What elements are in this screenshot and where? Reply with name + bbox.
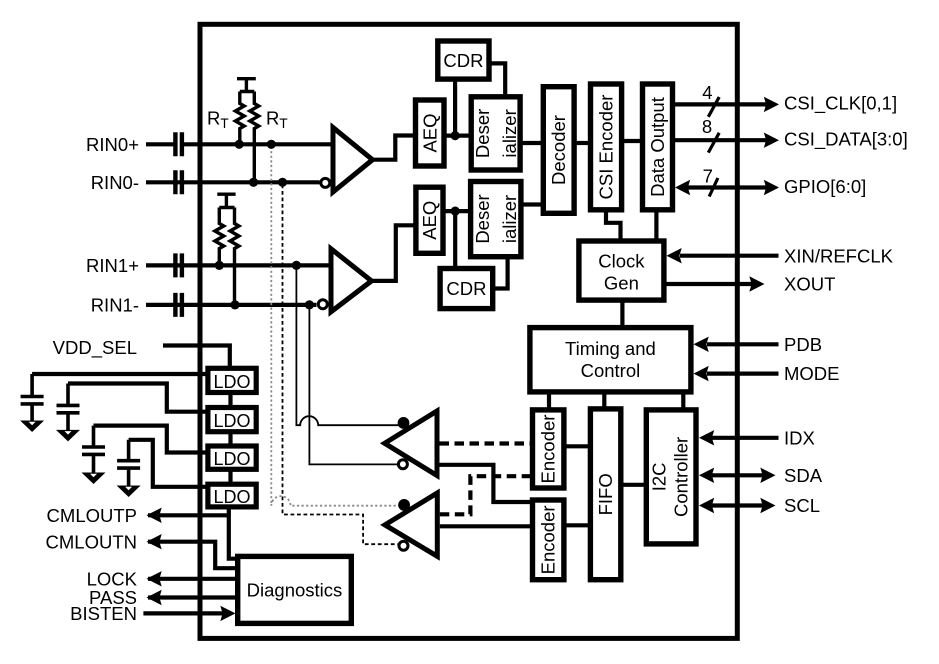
svg-text:I2C: I2C — [648, 463, 669, 492]
svg-text:XOUT: XOUT — [784, 274, 835, 295]
svg-text:RT: RT — [266, 108, 288, 131]
svg-text:Deser: Deser — [472, 194, 493, 243]
svg-text:ializer: ializer — [499, 109, 520, 157]
svg-text:RT: RT — [207, 108, 229, 131]
svg-text:CSI Encoder: CSI Encoder — [596, 95, 617, 200]
svg-text:LDO: LDO — [213, 487, 250, 507]
svg-text:BISTEN: BISTEN — [70, 603, 137, 624]
svg-text:CDR: CDR — [446, 278, 486, 299]
svg-text:XIN/REFCLK: XIN/REFCLK — [784, 245, 894, 266]
svg-text:IDX: IDX — [784, 427, 815, 448]
svg-text:RIN1+: RIN1+ — [86, 255, 139, 276]
svg-text:Control: Control — [581, 360, 641, 381]
svg-text:MODE: MODE — [784, 363, 840, 384]
svg-text:GPIO[6:0]: GPIO[6:0] — [784, 176, 866, 197]
svg-text:CSI_DATA[3:0]: CSI_DATA[3:0] — [784, 128, 908, 150]
svg-text:AEQ: AEQ — [419, 113, 440, 152]
svg-text:CSI_CLK[0,1]: CSI_CLK[0,1] — [784, 93, 897, 115]
svg-text:8: 8 — [702, 116, 712, 137]
svg-text:LDO: LDO — [213, 372, 250, 392]
svg-text:AEQ: AEQ — [419, 201, 440, 240]
svg-text:RIN0-: RIN0- — [91, 172, 139, 193]
svg-text:LDO: LDO — [213, 411, 250, 431]
svg-text:VDD_SEL: VDD_SEL — [53, 337, 137, 359]
svg-text:FIFO: FIFO — [595, 473, 616, 515]
svg-text:Diagnostics: Diagnostics — [247, 580, 343, 601]
svg-text:CMLOUTN: CMLOUTN — [46, 531, 137, 552]
svg-text:Encoder: Encoder — [538, 505, 559, 574]
svg-text:4: 4 — [702, 82, 712, 103]
svg-text:CMLOUTP: CMLOUTP — [47, 505, 137, 526]
svg-text:ializer: ializer — [499, 195, 520, 243]
svg-text:PDB: PDB — [784, 334, 822, 355]
svg-text:7: 7 — [703, 166, 713, 187]
svg-text:LDO: LDO — [213, 449, 250, 469]
svg-text:Deser: Deser — [472, 109, 493, 158]
svg-text:RIN1-: RIN1- — [91, 295, 139, 316]
svg-text:Decoder: Decoder — [548, 115, 569, 185]
svg-text:Clock: Clock — [598, 251, 645, 272]
svg-text:SDA: SDA — [784, 465, 823, 486]
svg-text:Controller: Controller — [670, 437, 691, 517]
svg-text:Gen: Gen — [604, 273, 639, 294]
svg-text:Data Output: Data Output — [647, 97, 668, 197]
svg-text:Timing and: Timing and — [565, 338, 656, 359]
svg-text:CDR: CDR — [443, 50, 483, 71]
svg-text:Encoder: Encoder — [538, 415, 559, 484]
svg-text:SCL: SCL — [784, 495, 820, 516]
svg-text:RIN0+: RIN0+ — [86, 134, 139, 155]
